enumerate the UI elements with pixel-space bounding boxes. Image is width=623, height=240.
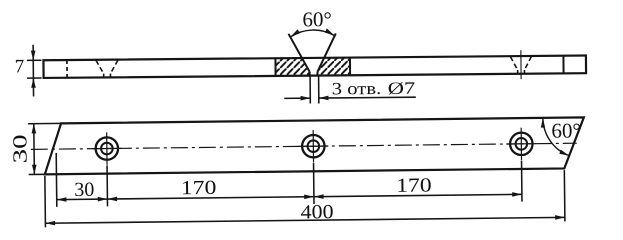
chain dimension line 30/170/170 bbox=[57, 194, 522, 199]
400 extension line left bbox=[44, 176, 47, 227]
hole 1 vertical center line bbox=[106, 132, 108, 164]
countersink cone left edge bbox=[289, 34, 310, 72]
callout dimension line right segment / leader shelf bbox=[319, 96, 416, 99]
svg-text:170: 170 bbox=[396, 174, 432, 196]
hole 1 inner circle bbox=[101, 143, 113, 155]
hole 3 hidden countersink (dashed V) bbox=[510, 56, 531, 73]
countersink cone right edge bbox=[317, 33, 336, 71]
thickness 7 dimension line bbox=[32, 45, 34, 97]
hole 2 inner circle bbox=[307, 140, 319, 152]
plan arc arrow bottom (on slant) bbox=[559, 149, 569, 155]
arc arrow right bbox=[325, 28, 335, 36]
170b arrow right bbox=[512, 192, 522, 197]
svg-text:60°: 60° bbox=[551, 118, 581, 142]
broken-out section: right hatch block bbox=[317, 58, 350, 76]
section right boundary bbox=[349, 58, 351, 76]
broken-out section: left hatch block bbox=[275, 58, 309, 76]
width 30 bottom extension tick bbox=[29, 173, 46, 175]
plan arc arrow top (on top edge) bbox=[541, 118, 545, 128]
width 30 arrow down bbox=[32, 165, 37, 175]
30 arrow left bbox=[57, 197, 67, 202]
callout dimension line left segment bbox=[284, 97, 310, 99]
svg-text:60°: 60° bbox=[302, 7, 332, 31]
center line solid crossing hole 2 bbox=[298, 145, 328, 147]
thickness arrow top (pointing down) bbox=[31, 51, 36, 61]
30 arrow right bbox=[98, 197, 108, 202]
hole 3 outer circle (countersink) bbox=[510, 133, 533, 156]
hole 2 vertical center line bbox=[312, 130, 314, 162]
svg-text:170: 170 bbox=[181, 177, 217, 199]
svg-text:7: 7 bbox=[15, 56, 25, 77]
thickness top extension tick bbox=[27, 59, 41, 61]
hole 2 extension line bbox=[313, 163, 315, 204]
svg-text:30: 30 bbox=[9, 134, 31, 163]
right chamfer edge (solid vertical) bbox=[562, 56, 564, 74]
callout arrow pointing right bbox=[301, 96, 311, 101]
400 extension line right bbox=[563, 170, 566, 221]
hole dia extension line left bbox=[309, 76, 311, 104]
width 30 arrow up bbox=[31, 124, 36, 134]
section left boundary bbox=[274, 58, 276, 76]
width 30 dimension line (left, vertical) bbox=[33, 124, 36, 175]
60deg angle dimension arc bbox=[290, 30, 335, 37]
170b arrow left bbox=[314, 194, 324, 199]
main horizontal center line (dash-dot) bbox=[31, 143, 577, 149]
hole 3 inner circle bbox=[515, 138, 527, 150]
hole 1 outer circle (countersink) bbox=[96, 137, 119, 160]
60deg angle arc at right corner bbox=[543, 118, 569, 156]
center line solid crossing hole 1 bbox=[92, 147, 122, 149]
hole 3 vertical center line bbox=[520, 128, 522, 160]
hole 3 axis center line bbox=[520, 50, 522, 79]
170a arrow right bbox=[304, 194, 314, 199]
bar outline front view bbox=[43, 56, 586, 78]
svg-text:400: 400 bbox=[300, 201, 333, 223]
svg-text:30: 30 bbox=[74, 179, 94, 201]
hole 1 extension line bbox=[106, 165, 108, 206]
400 arrow right bbox=[555, 215, 565, 220]
svg-text:3 отв.: 3 отв. bbox=[332, 79, 382, 98]
hole 1 hidden countersink (dashed V) bbox=[96, 60, 118, 77]
thickness bottom extension tick bbox=[27, 77, 41, 79]
hole wall right bbox=[316, 72, 318, 76]
width 30 top extension tick bbox=[28, 122, 61, 124]
hole 2 outer circle (countersink) bbox=[302, 135, 325, 158]
hole dia extension line right bbox=[318, 76, 320, 104]
left chamfer hidden edge (dashed vertical) bbox=[66, 60, 68, 78]
center line solid crossing hole 3 bbox=[506, 143, 536, 145]
hole wall left bbox=[309, 72, 311, 76]
thickness arrow bottom (pointing up) bbox=[31, 78, 36, 88]
callout arrow pointing left bbox=[319, 96, 329, 101]
400 dimension line bbox=[45, 217, 564, 223]
170a arrow left bbox=[107, 197, 117, 202]
arc arrow left bbox=[290, 29, 300, 37]
plate outline plan view (parallelogram) bbox=[44, 117, 584, 174]
svg-text:Ø7: Ø7 bbox=[388, 79, 416, 98]
400 arrow left bbox=[45, 221, 55, 226]
hole 3 extension line bbox=[521, 161, 523, 202]
extension line at left slant (for 30 dim) bbox=[55, 153, 58, 207]
